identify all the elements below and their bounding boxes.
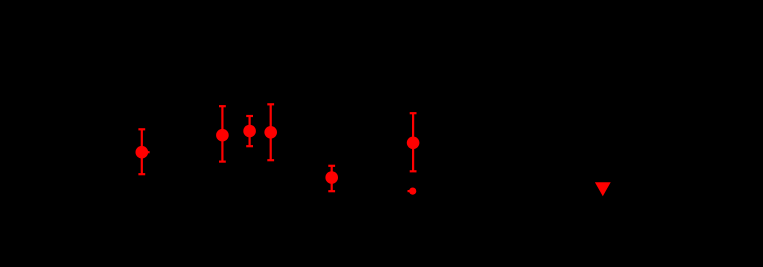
upper-limit triangle marker bbox=[595, 182, 611, 196]
error bar 6 bbox=[410, 113, 417, 171]
data point 5 bbox=[325, 171, 338, 184]
error bar 7 (small horizontal) bbox=[408, 190, 413, 192]
data point 3 bbox=[243, 125, 256, 138]
error bar 5 bbox=[328, 166, 335, 191]
data point 4 bbox=[264, 126, 277, 139]
error bar 1 bbox=[138, 129, 149, 174]
error bar 3 bbox=[246, 116, 253, 146]
data point 1 bbox=[136, 146, 149, 159]
error bar 4 bbox=[267, 104, 274, 160]
data point 2 bbox=[216, 129, 229, 142]
data point 6 bbox=[407, 137, 420, 150]
error bar 2 bbox=[219, 106, 226, 161]
data point 7 (small) bbox=[409, 188, 416, 195]
